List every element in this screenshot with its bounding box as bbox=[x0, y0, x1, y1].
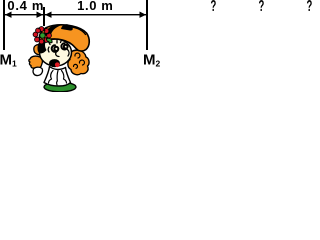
bonnet sprig bbox=[61, 24, 73, 30]
extension line right (M2) bbox=[146, 0, 148, 50]
left hand (orange mitten) bbox=[29, 56, 42, 68]
flower green center bbox=[40, 33, 46, 39]
bonnet top edge line bbox=[71, 27, 86, 35]
curl swirls bbox=[73, 53, 84, 68]
bonnet bbox=[39, 25, 89, 51]
svg-text:?: ? bbox=[307, 0, 313, 15]
flower leaf bbox=[47, 38, 53, 43]
svg-text:0.4 m: 0.4 m bbox=[7, 0, 44, 13]
white cuff bbox=[33, 67, 42, 75]
girl clip-art bbox=[29, 24, 89, 92]
flower berries bbox=[33, 27, 51, 44]
dimension tick middle bbox=[43, 7, 45, 26]
left sleeve (orange) bbox=[34, 45, 45, 55]
tongue bbox=[55, 62, 60, 67]
dimension arrow 1.0 m bbox=[45, 12, 146, 18]
svg-text:1.0 m: 1.0 m bbox=[77, 0, 113, 13]
svg-text:?: ? bbox=[259, 0, 265, 15]
mouth bbox=[49, 59, 60, 67]
eye left bbox=[52, 45, 59, 52]
lashes and nose bbox=[48, 40, 69, 57]
bonnet dark crown bbox=[45, 24, 63, 36]
right hair curls bbox=[68, 50, 89, 75]
grass base bbox=[44, 82, 76, 92]
face bbox=[40, 39, 72, 66]
svg-text:M2: M2 bbox=[143, 52, 161, 69]
flower black dots bbox=[36, 28, 49, 42]
svg-text:M1: M1 bbox=[0, 52, 17, 69]
svg-text:?: ? bbox=[211, 0, 217, 15]
dimension arrow 0.4 m bbox=[5, 12, 43, 18]
skirt pleats bbox=[49, 71, 67, 85]
skirt bbox=[44, 67, 71, 87]
eye right bbox=[61, 43, 67, 49]
hair shadow left of face bbox=[37, 41, 46, 54]
extension line left (M1) bbox=[3, 0, 5, 50]
